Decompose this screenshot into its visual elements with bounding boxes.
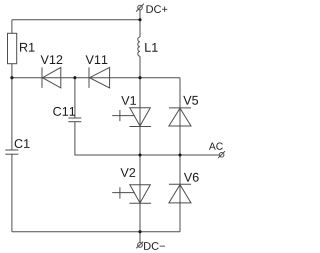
- label V11: [86, 55, 108, 64]
- node junction dot mid branch / AC row: [138, 153, 141, 156]
- node junction dot mid branch / diode row: [138, 76, 141, 79]
- wire C11 to AC row: [75, 122, 219, 155]
- wire mid branch: [139, 56, 141, 242]
- wire R1 bottom to C1: [11, 64, 13, 150]
- terminal DC+: [136, 4, 144, 12]
- label DC-: [144, 242, 165, 250]
- label AC: [209, 143, 223, 150]
- node junction dot mid branch / bottom rail: [138, 230, 141, 233]
- wire bottom rail: [12, 231, 180, 233]
- label V12: [41, 55, 63, 64]
- label V2: [120, 168, 135, 177]
- wire left rail lower: [11, 154, 13, 232]
- label V5: [183, 96, 198, 105]
- wire top rail: [12, 19, 140, 21]
- diode V5: [169, 108, 191, 126]
- wire diode row: [12, 77, 180, 79]
- label C11: [53, 107, 75, 116]
- diode V12: [42, 67, 61, 88]
- capacitor C11: [68, 118, 81, 122]
- capacitor C1: [5, 150, 18, 154]
- wire left rail upper: [11, 20, 13, 34]
- label L1: [145, 43, 157, 52]
- label V6: [184, 173, 199, 182]
- node junction dot right branch / AC row: [178, 153, 181, 156]
- label C1: [15, 139, 30, 148]
- wire C11 branch upper: [74, 78, 76, 118]
- diode V11: [89, 67, 110, 88]
- thyristor V1: [112, 108, 151, 127]
- label V1: [121, 96, 136, 105]
- inductor L1: [138, 37, 140, 56]
- resistor R1: [8, 33, 17, 63]
- wire DC+ to L1: [139, 10, 141, 37]
- wire right branch: [179, 78, 181, 232]
- node junction dot top rail / DC+: [138, 18, 141, 21]
- node junction dot left rail / diode row: [10, 76, 13, 79]
- label R1: [20, 43, 34, 52]
- node junction dot C11 / diode row: [73, 76, 76, 79]
- diode V6: [169, 184, 191, 203]
- terminal DC-: [136, 242, 143, 249]
- label DC+: [147, 5, 168, 13]
- terminal AC: [218, 151, 225, 158]
- thyristor V2: [112, 185, 151, 204]
